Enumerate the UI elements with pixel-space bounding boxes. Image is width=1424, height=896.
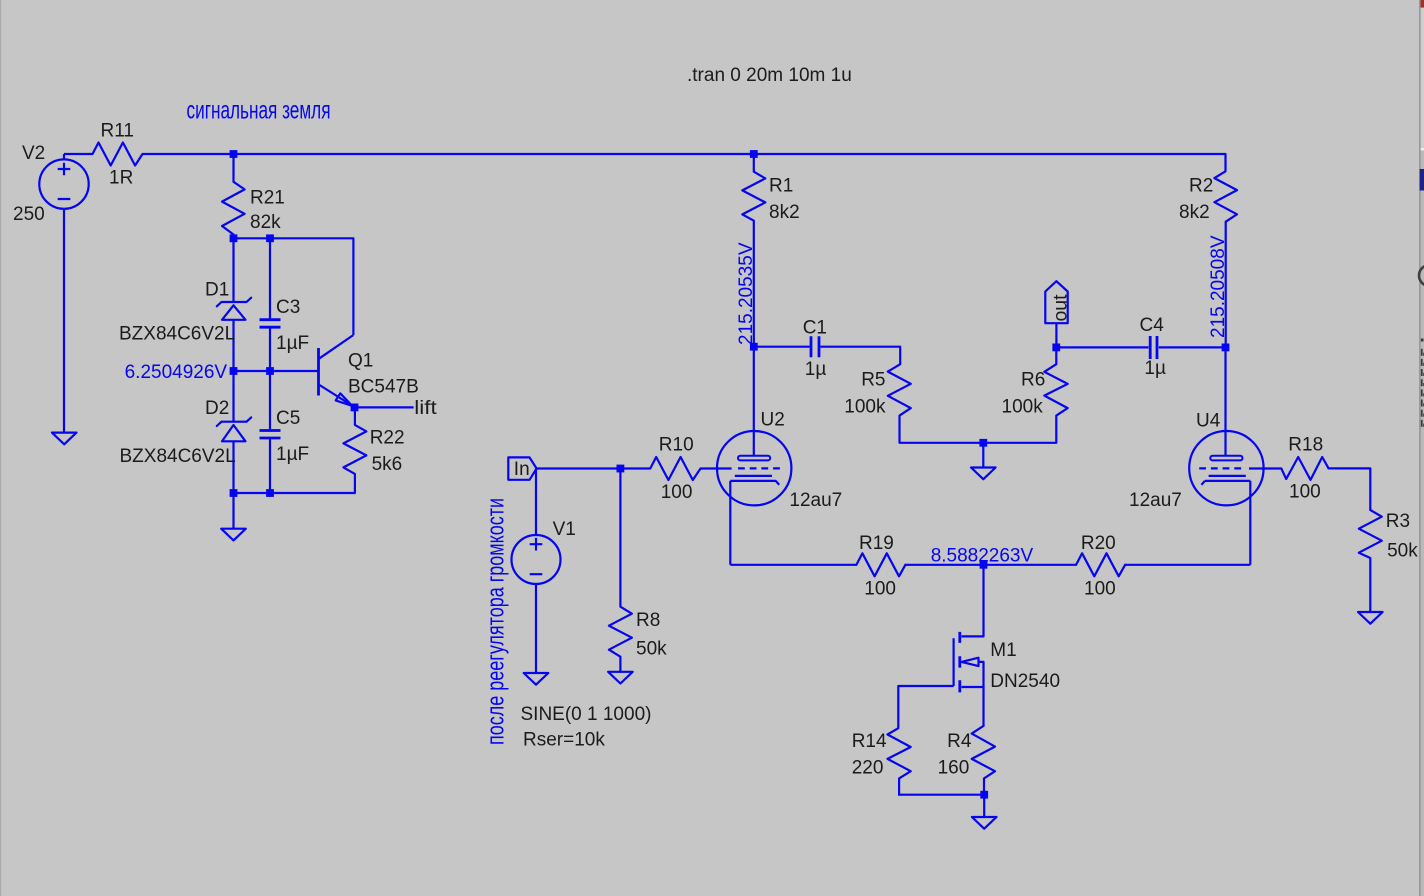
ground under V2 bbox=[52, 433, 77, 445]
node junction R1/C1/U2 bbox=[750, 343, 758, 351]
resistor R11 bbox=[93, 143, 143, 166]
wire top rail bbox=[64, 153, 1226, 155]
node junction top rail / R21 bbox=[230, 150, 238, 158]
wire bottom row R14-R4 bbox=[898, 794, 984, 796]
svg-text:C3: C3 bbox=[276, 297, 300, 318]
svg-text:215.20535V: 215.20535V bbox=[736, 242, 757, 345]
svg-text:1µF: 1µF bbox=[276, 333, 309, 354]
svg-text:R1: R1 bbox=[769, 176, 793, 197]
node junction 8.58V bbox=[980, 561, 988, 569]
svg-text:BZX84C6V2L: BZX84C6V2L bbox=[119, 324, 235, 345]
svg-text:1µF: 1µF bbox=[276, 444, 309, 465]
svg-text:R8: R8 bbox=[636, 610, 660, 631]
svg-text:R21: R21 bbox=[250, 188, 285, 209]
svg-text:R10: R10 bbox=[659, 435, 694, 456]
ground under R5/R6 bbox=[971, 468, 996, 480]
svg-text:12au7: 12au7 bbox=[1129, 490, 1182, 511]
svg-text:1µ: 1µ bbox=[805, 359, 827, 380]
svg-text:6.2504926V: 6.2504926V bbox=[125, 362, 228, 383]
svg-text:BZX84C6V2L: BZX84C6V2L bbox=[120, 446, 236, 467]
svg-text:R4: R4 bbox=[947, 731, 972, 752]
svg-text:R20: R20 bbox=[1081, 533, 1116, 554]
resistor R22 5k6 bbox=[343, 407, 404, 493]
svg-text:1µ: 1µ bbox=[1144, 358, 1166, 379]
svg-text:250: 250 bbox=[13, 204, 45, 225]
resistor R14 220 bbox=[852, 726, 911, 795]
svg-text:12au7: 12au7 bbox=[789, 490, 842, 511]
svg-text:U4: U4 bbox=[1196, 410, 1221, 431]
triode U4 12au7 bbox=[1129, 347, 1264, 564]
capacitor C4 1u bbox=[1056, 315, 1225, 379]
resistor R8 50k bbox=[609, 469, 667, 672]
svg-text:BC547B: BC547B bbox=[348, 377, 419, 398]
zener diode D1 BZX84C6V2L bbox=[119, 238, 251, 371]
node junction out/R6/C4 bbox=[1052, 344, 1060, 352]
wire In to junction bbox=[537, 467, 621, 469]
node at Q1 emitter bbox=[351, 404, 359, 412]
voltage source V1 SINE bbox=[512, 519, 652, 751]
right panel red fragment bbox=[1421, 0, 1424, 8]
wire R20 to U4 cathode bbox=[1125, 564, 1250, 566]
svg-text:160: 160 bbox=[938, 757, 970, 778]
svg-text:5k6: 5k6 bbox=[372, 454, 403, 475]
flag In bbox=[508, 457, 536, 480]
right panel blue fragment bbox=[1420, 169, 1424, 191]
svg-text:100: 100 bbox=[661, 482, 693, 503]
svg-text:V1: V1 bbox=[553, 519, 576, 540]
svg-text:220: 220 bbox=[852, 757, 884, 778]
svg-text:100: 100 bbox=[1084, 579, 1116, 600]
svg-text:Q1: Q1 bbox=[348, 351, 373, 372]
svg-text:100k: 100k bbox=[844, 397, 886, 418]
wire row y=238 to collector bbox=[234, 238, 354, 335]
svg-text:R6: R6 bbox=[1021, 369, 1045, 390]
ground under R3 bbox=[1358, 612, 1383, 624]
svg-text:сигнальная земля: сигнальная земля bbox=[187, 97, 331, 125]
node junction C4/R2/U4 bbox=[1222, 344, 1230, 352]
node junction bottom bbox=[980, 791, 988, 799]
wire stub to ground bbox=[983, 795, 985, 817]
resistor R2 8k2 bbox=[1179, 154, 1237, 347]
right panel text fragments bbox=[1421, 339, 1424, 427]
svg-text:C1: C1 bbox=[803, 318, 827, 339]
svg-text:R3: R3 bbox=[1386, 511, 1410, 532]
svg-text:R2: R2 bbox=[1189, 176, 1213, 197]
wire stub to ground bbox=[232, 493, 234, 529]
wire down to V1 bbox=[535, 469, 537, 536]
svg-text:R11: R11 bbox=[101, 121, 134, 142]
wire node down to M1 drain bbox=[962, 565, 984, 637]
svg-text:R14: R14 bbox=[852, 731, 887, 752]
svg-text:R22: R22 bbox=[370, 428, 405, 449]
svg-text:1R: 1R bbox=[109, 168, 133, 189]
svg-text:D2: D2 bbox=[205, 398, 229, 419]
right panel light line bbox=[1421, 148, 1424, 150]
ground under R8 bbox=[608, 672, 633, 684]
resistor R20 100 bbox=[1076, 533, 1125, 600]
wire R18 to R3 bbox=[1329, 468, 1371, 510]
wire bottom row of ladder bbox=[234, 492, 355, 494]
svg-text:V2: V2 bbox=[22, 143, 45, 164]
wire U4 grid to R18 bbox=[1249, 467, 1281, 469]
node junction top rail / R1 bbox=[750, 150, 758, 158]
resistor R4 160 bbox=[938, 726, 995, 795]
svg-text:In: In bbox=[514, 459, 530, 480]
svg-text:out: out bbox=[1051, 294, 1072, 322]
right panel strip background bbox=[1421, 0, 1424, 896]
wire U2 cathode to R19 bbox=[730, 564, 856, 566]
mosfet M1 DN2540 bbox=[954, 632, 1060, 726]
capacitor C5 1uF bbox=[260, 371, 310, 493]
node junction ground row bbox=[979, 439, 987, 447]
ground under ladder bbox=[221, 529, 246, 541]
flag out bbox=[1045, 281, 1071, 347]
svg-text:8k2: 8k2 bbox=[769, 202, 800, 223]
node junction In/R8/R10 bbox=[617, 465, 625, 473]
zener diode D2 BZX84C6V2L bbox=[120, 371, 252, 493]
wire gate to R14 bbox=[898, 686, 953, 726]
right panel divider line bbox=[1419, 0, 1420, 896]
transistor Q1 BC547B bbox=[319, 335, 419, 406]
svg-text:U2: U2 bbox=[761, 410, 785, 431]
svg-text:R19: R19 bbox=[859, 533, 894, 554]
svg-text:M1: M1 bbox=[990, 640, 1016, 661]
voltage source V2 bbox=[13, 143, 89, 433]
svg-text:R5: R5 bbox=[861, 369, 885, 390]
svg-text:215.20508V: 215.20508V bbox=[1208, 235, 1229, 338]
ground under V1 bbox=[524, 673, 549, 685]
capacitor C3 1uF bbox=[260, 238, 310, 371]
svg-text:8k2: 8k2 bbox=[1179, 202, 1210, 223]
wire bottom row R5-R6 bbox=[900, 442, 1056, 444]
resistor R1 8k2 bbox=[742, 154, 799, 347]
svg-text:после реегулятора громкости: после реегулятора громкости bbox=[483, 498, 510, 745]
resistor R21 bbox=[222, 154, 285, 238]
svg-text:100: 100 bbox=[1289, 482, 1321, 503]
resistor R18 100 bbox=[1281, 435, 1328, 503]
capacitor C1 1u bbox=[754, 318, 900, 381]
svg-text:100: 100 bbox=[864, 579, 896, 600]
triode U2 12au7 bbox=[717, 347, 842, 565]
svg-text:100k: 100k bbox=[1002, 397, 1044, 418]
ground under M1 source bbox=[972, 817, 997, 829]
wire R10 to U2 grid bbox=[701, 467, 732, 469]
svg-text:DN2540: DN2540 bbox=[990, 671, 1060, 692]
svg-text:Rser=10k: Rser=10k bbox=[523, 730, 605, 751]
svg-text:50k: 50k bbox=[1387, 541, 1418, 562]
resistor R6 100k bbox=[1002, 347, 1068, 442]
svg-text:lift: lift bbox=[414, 398, 437, 419]
left window edge line bbox=[0, 0, 1, 896]
svg-text:R18: R18 bbox=[1288, 435, 1323, 456]
resistor R10 100 bbox=[620, 435, 700, 503]
wire R19 to node bbox=[905, 564, 1076, 566]
svg-text:82k: 82k bbox=[250, 212, 281, 233]
resistor R19 100 bbox=[856, 533, 905, 600]
svg-text:.tran 0 20m 10m 1u: .tran 0 20m 10m 1u bbox=[687, 65, 852, 86]
right panel light zone bbox=[1421, 8, 1424, 149]
svg-text:C4: C4 bbox=[1140, 315, 1165, 336]
svg-text:C5: C5 bbox=[276, 408, 300, 429]
resistor R5 100k bbox=[844, 347, 911, 443]
wire stub to ground bbox=[982, 443, 984, 468]
svg-text:50k: 50k bbox=[636, 639, 667, 660]
wire to lift bbox=[355, 406, 414, 408]
svg-text:D1: D1 bbox=[205, 280, 229, 301]
resistor R3 50k bbox=[1359, 510, 1418, 612]
right panel C glyph fragment bbox=[1419, 265, 1424, 286]
node row 6.2504926V bbox=[234, 370, 319, 372]
svg-text:SINE(0 1 1000): SINE(0 1 1000) bbox=[521, 704, 652, 725]
